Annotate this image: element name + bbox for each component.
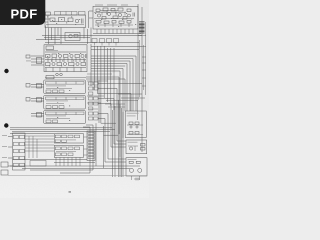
U10 cells — [55, 135, 79, 142]
wire stubs below U9 — [132, 176, 140, 180]
resistor R10 — [104, 21, 109, 24]
transistor Q5 — [58, 54, 61, 57]
transistor Q3b — [118, 13, 121, 16]
resistor R8 — [123, 17, 127, 20]
page number — [69, 191, 72, 193]
wire bus below top — [36, 34, 142, 43]
resistor R2 — [59, 18, 65, 22]
transistor Q9 — [129, 147, 132, 150]
label — [26, 84, 30, 88]
wire wrap bottom-left — [30, 125, 93, 173]
transistor Q3 — [108, 13, 111, 16]
resistor R11b — [127, 21, 131, 24]
label box bottom left 2 — [1, 170, 8, 175]
resistor R1 — [50, 18, 55, 22]
resistor R1b — [74, 35, 78, 38]
wire verticals below badge — [46, 26, 52, 45]
paper noise — [0, 0, 149, 198]
resistor R5b — [111, 9, 115, 12]
connector J3 — [31, 98, 44, 103]
resistor R12 — [46, 55, 51, 58]
IC U3 mid cluster — [44, 45, 87, 72]
resistor R14 — [64, 55, 69, 58]
resistor R16 — [57, 63, 62, 66]
resistor R20 — [129, 132, 133, 135]
transistor Q12 — [138, 168, 142, 172]
wire nested verticals to bottom — [99, 80, 123, 177]
wire inner U7 — [127, 125, 143, 135]
label text above U2 — [95, 4, 128, 7]
switch cells — [14, 135, 25, 167]
transistor Q14 — [136, 126, 138, 128]
resistor R5 — [103, 8, 108, 11]
label — [26, 98, 30, 102]
connector J4 — [31, 113, 44, 118]
transistor Q1b — [69, 35, 72, 38]
resistor R22b — [141, 148, 146, 151]
wire stubs left of U1 — [45, 19, 51, 22]
wire verticals channel — [91, 44, 114, 123]
wire top bundle bottom-left — [10, 128, 115, 134]
wire horizontals above U7 — [105, 101, 138, 108]
IC U9 right box3 — [126, 158, 147, 176]
transistor Q2 — [97, 14, 100, 17]
wire comb under rows — [56, 158, 80, 167]
connector boxes right of blocks — [88, 82, 98, 120]
transistor Q6b — [81, 54, 84, 57]
connector stubs left — [8, 137, 13, 167]
resistor R17 — [69, 63, 75, 66]
transistor Q8b — [76, 62, 79, 65]
label box bottom left — [1, 162, 8, 167]
U6 header cells — [46, 112, 85, 123]
label box under U3 — [46, 76, 54, 79]
label box L0 — [46, 12, 51, 15]
wire right border — [138, 4, 142, 152]
resistor R21 — [135, 132, 139, 135]
resistor R23 — [129, 161, 133, 163]
connector J1 — [31, 56, 44, 65]
transistor Q13 — [130, 126, 132, 128]
resistor R11 — [119, 21, 124, 24]
transistor Q8 — [63, 62, 66, 65]
resistor R5d — [127, 9, 131, 12]
resistor R18 — [129, 122, 133, 125]
wire right edge stubs — [138, 36, 146, 87]
IC U11 row2 — [54, 145, 83, 157]
capacitor C1 — [82, 19, 84, 24]
wire fan extra horizontals — [45, 74, 112, 109]
wire verticals under U1 — [55, 28, 91, 45]
component specks U1 U2 — [47, 13, 136, 121]
capacitor C2 — [133, 13, 135, 17]
transistor Q7 — [52, 62, 55, 65]
transistor Q4 — [128, 14, 131, 17]
wire U1 inner — [46, 15, 84, 27]
text smudge lines — [2, 50, 139, 193]
transistor pair under U3 — [56, 73, 59, 76]
resistor R17b — [81, 63, 86, 66]
punch hole bottom — [4, 123, 8, 127]
wire nested corners to bottom — [96, 123, 118, 168]
resistor R5c — [118, 8, 123, 11]
punch hole top — [4, 69, 8, 73]
label strip cells — [55, 12, 86, 16]
resistor R6 — [102, 17, 106, 20]
bus hatch node B — [139, 22, 145, 33]
IC U4 block1 — [44, 80, 86, 94]
wire stubs into U2 — [89, 11, 94, 28]
U4 header cells — [46, 82, 85, 93]
switch bank S1 ladder — [13, 133, 26, 170]
wire inner U3 — [45, 52, 86, 68]
wire bottom bus — [10, 160, 140, 169]
connector J1 housing — [37, 58, 42, 64]
label box grid — [30, 161, 46, 167]
capacitor C2b — [86, 54, 87, 58]
svg-text:PDF: PDF — [11, 7, 38, 22]
connector strip right of rows — [87, 131, 95, 161]
label — [26, 55, 30, 58]
resistor R14b — [75, 55, 80, 58]
capacitor C3 — [134, 178, 140, 181]
resistor R4 — [96, 9, 100, 12]
IC U8 right box2 — [126, 140, 147, 154]
U5 header cells — [46, 97, 85, 108]
wire right margin bus — [138, 22, 146, 120]
resistor R9 — [96, 21, 101, 24]
IC U2 top-right block — [93, 6, 138, 29]
wire channel right upper — [91, 47, 142, 158]
IC U1b driver — [65, 33, 80, 41]
resistor R19 — [135, 122, 139, 125]
IC U7 right box1 — [125, 111, 146, 138]
resistor R15 — [46, 63, 51, 66]
resistor R13 — [52, 54, 57, 58]
resistor R24 — [136, 161, 140, 163]
wire fan from blocks to right — [98, 84, 142, 163]
wire dashed — [8, 175, 147, 177]
IC U5 block2 — [44, 96, 86, 110]
resistor R3 — [68, 18, 73, 22]
IC U6 block3 — [44, 111, 86, 124]
transistor Q11 — [130, 168, 134, 172]
wire inner U8 — [128, 146, 138, 151]
label box — [43, 44, 45, 46]
row of small boxes node C — [92, 39, 119, 46]
wire grid mid bottom — [25, 136, 54, 158]
U11 cells — [55, 147, 79, 156]
label L1 — [46, 46, 54, 50]
wire inner U2 — [94, 11, 134, 28]
wire row links — [84, 137, 88, 155]
IC U1 — [45, 15, 86, 28]
wire ticks below U2 — [97, 29, 133, 34]
connector J2 — [31, 84, 44, 89]
transistor Q6 — [70, 54, 73, 57]
wire fan horizontals right — [86, 77, 145, 134]
IC U10 row1 — [54, 134, 83, 143]
resistor R10b — [112, 21, 116, 24]
wire inner U3 bottom — [46, 68, 81, 72]
resistor R7 — [113, 16, 118, 19]
PDF badge — [0, 0, 45, 25]
transistor Q1 — [75, 19, 79, 23]
resistor R22 — [141, 144, 146, 147]
